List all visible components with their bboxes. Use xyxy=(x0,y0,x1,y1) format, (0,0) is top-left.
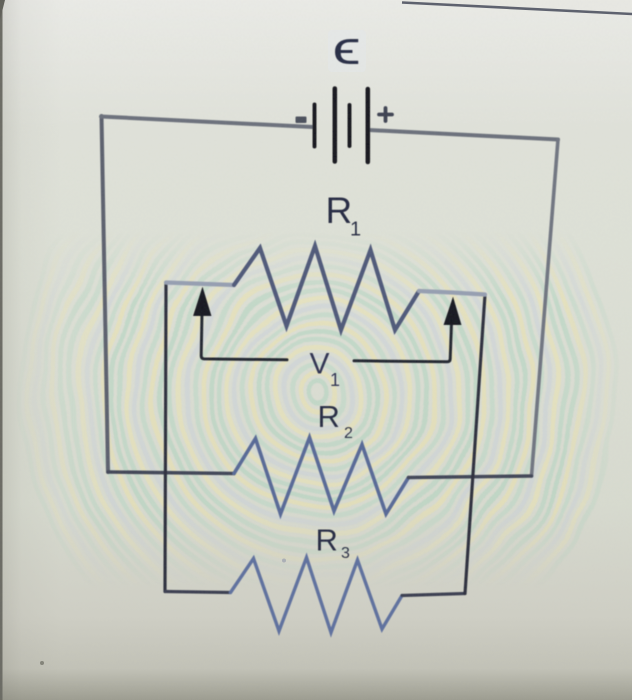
svg-text:V: V xyxy=(310,348,330,381)
svg-text:R: R xyxy=(318,399,340,434)
svg-text:R: R xyxy=(316,523,338,558)
svg-text:R: R xyxy=(326,190,353,231)
svg-text:ϵ: ϵ xyxy=(333,21,361,74)
svg-text:3: 3 xyxy=(341,545,350,562)
svg-text:1: 1 xyxy=(330,370,340,390)
svg-text:1: 1 xyxy=(350,219,361,241)
svg-text:2: 2 xyxy=(344,425,353,442)
